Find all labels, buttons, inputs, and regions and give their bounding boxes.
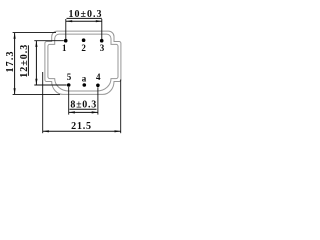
dim 10±0.3 dimension line [66, 20, 102, 22]
svg-text:2: 2 [81, 43, 86, 53]
dim 12±0.3 down arrow [35, 79, 37, 85]
svg-text:a: a [82, 74, 87, 84]
svg-text:17.3: 17.3 [5, 50, 16, 72]
dim 8±0.3 ext line pin5 down [68, 87, 70, 115]
dim 12±0.3 dimension line [35, 41, 37, 85]
extension line pin1 up [65, 19, 67, 39]
dim 8±0.3 ext line pin4 down [97, 87, 99, 114]
dim 17.3 dimension line [14, 33, 16, 95]
pin 4 dot [96, 84, 100, 88]
svg-text:4: 4 [96, 72, 101, 82]
package outline inner [48, 34, 118, 91]
dim 21.5 right arrow [115, 130, 121, 132]
dim 12±0.3 ext line top (pin1 row) [34, 40, 64, 42]
dim 17.3 ext line bottom [13, 93, 60, 95]
pin 3 dot [100, 39, 104, 43]
dim 17.3 ext line top [13, 32, 56, 34]
dim 8±0.3 right arrow [92, 111, 98, 113]
svg-text:12±0.3: 12±0.3 [19, 44, 30, 78]
dim 8±0.3 underline [70, 108, 97, 110]
svg-text:1: 1 [62, 43, 67, 53]
svg-text:3: 3 [100, 43, 105, 53]
pin 1 dot [64, 39, 68, 43]
dim 8±0.3 dimension line [69, 111, 98, 113]
dim 21.5 left arrow [43, 130, 49, 132]
dim 21.5 dimension line [43, 130, 121, 132]
dim 12±0.3 up arrow [35, 41, 37, 47]
svg-text:5: 5 [67, 72, 72, 82]
pin 5 dot [67, 83, 71, 87]
dim 12±0.3 underline [27, 45, 29, 76]
dim 10±0.3 left arrow [66, 20, 72, 22]
dim 21.5 ext line right [120, 80, 122, 134]
dim 12±0.3 ext line bottom (pin5 row) [34, 84, 66, 86]
extension line pin3 up [101, 19, 103, 39]
package outline outer [45, 31, 121, 94]
dim 10±0.3 underline [67, 17, 102, 19]
pin a dot [83, 83, 87, 87]
svg-text:21.5: 21.5 [71, 121, 92, 132]
pin 2 dot [82, 38, 86, 42]
dim 17.3 up arrow [14, 33, 16, 39]
dim 21.5 ext line left [42, 72, 44, 133]
dim 17.3 down arrow [14, 88, 16, 94]
dim 10±0.3 right arrow [96, 20, 102, 22]
dim 8±0.3 left arrow [69, 111, 75, 113]
